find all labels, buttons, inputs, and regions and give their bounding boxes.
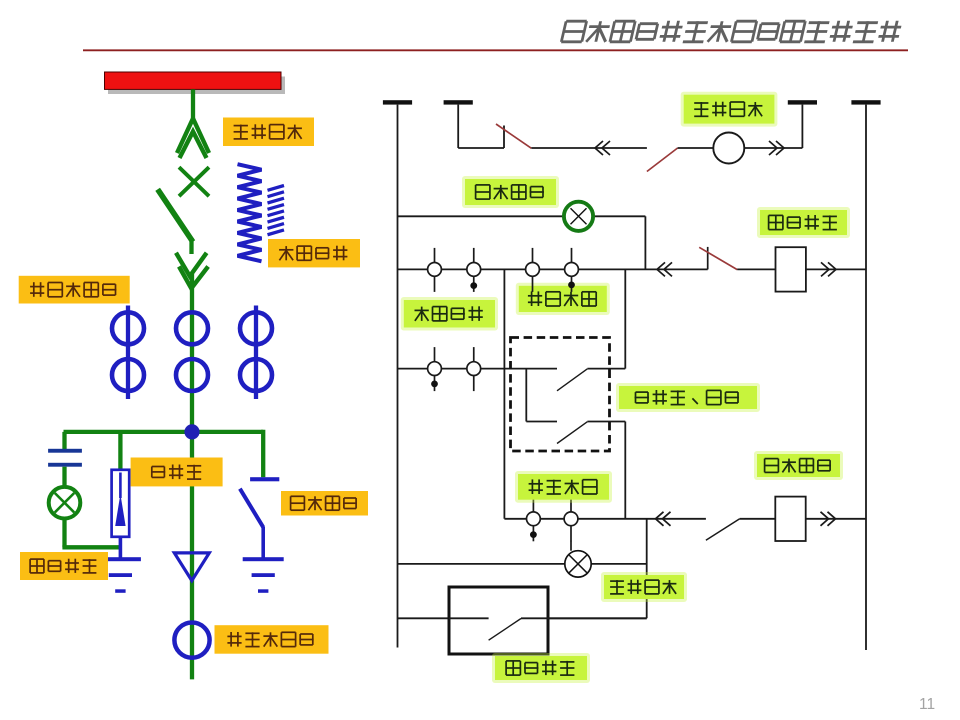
svg-text:11: 11 [919,696,935,713]
